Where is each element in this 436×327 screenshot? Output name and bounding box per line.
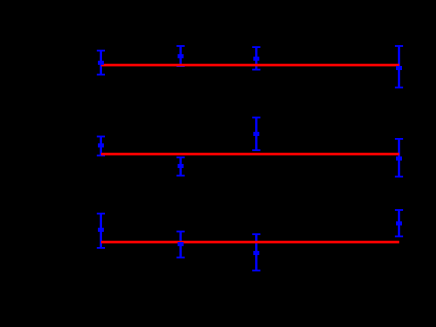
error bar (line+caps) of point P3.4, series 3 <box>395 210 403 236</box>
square marker of point P3.2, series 3 <box>178 242 184 246</box>
square marker of point P2.3, series 2 <box>253 132 259 136</box>
error bar (line+caps) of point P3.2, series 3 <box>177 232 185 258</box>
square marker of point P2.2, series 2 <box>178 164 184 168</box>
square marker of point P3.1, series 3 <box>98 228 104 232</box>
fit line F3 (red, series 3) <box>101 241 399 244</box>
error bar (line+caps) of point P2.2, series 2 <box>177 157 185 175</box>
square marker of point P3.4, series 3 <box>396 221 402 225</box>
error bar (line+caps) of point P2.1, series 2 <box>97 137 105 156</box>
error bar (line+caps) of point P1.3, series 1 <box>252 47 260 70</box>
error bar (line+caps) of point P1.1, series 1 <box>97 51 105 75</box>
error bar (line+caps) of point P1.2, series 1 <box>177 46 185 66</box>
error bar (line+caps) of point P3.1, series 3 <box>97 214 105 248</box>
square marker of point P1.1, series 1 <box>98 61 104 65</box>
error bar (line+caps) of point P2.4, series 2 <box>395 139 403 177</box>
square marker of point P1.3, series 1 <box>253 57 259 61</box>
square marker of point P1.4, series 1 <box>396 66 402 70</box>
error bar (line+caps) of point P2.3, series 2 <box>252 118 260 151</box>
square marker of point P2.4, series 2 <box>396 156 402 160</box>
fit line F2 (red, series 2) <box>101 153 399 156</box>
square marker of point P3.3, series 3 <box>253 251 259 255</box>
error bar (line+caps) of point P1.4, series 1 <box>395 46 403 88</box>
square marker of point P1.2, series 1 <box>178 54 184 58</box>
error bar (line+caps) of point P3.3, series 3 <box>252 234 260 270</box>
square marker of point P2.1, series 2 <box>98 143 104 147</box>
fit line F1 (red, series 1) <box>101 64 399 67</box>
